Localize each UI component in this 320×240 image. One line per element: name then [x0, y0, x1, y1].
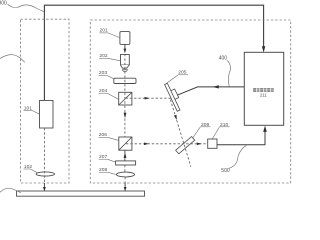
- leader squiggle for 300: [8, 4, 44, 11]
- label 202: [99, 53, 120, 61]
- beam 204 to scanner 205: [126, 97, 171, 99]
- wire 500: detector to processor: [217, 130, 265, 145]
- galvo actuator of 205: [170, 89, 178, 100]
- objective lens 208: [117, 172, 135, 177]
- dashed enclosure 100 (left module): [21, 19, 70, 183]
- svg-text:400: 400: [219, 55, 228, 61]
- beam: laser 101 to lens 102: [43, 128, 45, 183]
- label 101: [24, 105, 40, 114]
- arrow onto sample (right): [124, 187, 127, 191]
- label 204: [99, 88, 119, 100]
- beamsplitter 206: [119, 137, 132, 150]
- module title glyph marks (CJK smudge): [253, 88, 274, 91]
- arrow into processor top: [262, 46, 265, 52]
- beam 206 to 209 to 210: [126, 143, 208, 145]
- dashed enclosure 200 (right module): [90, 20, 290, 183]
- label 209: [192, 122, 210, 139]
- detector 210: [208, 139, 217, 148]
- beamsplitter 204: [119, 92, 132, 105]
- leader squiggle for module 100 (label cropped): [0, 55, 25, 63]
- arrow on beam 204 to 205: [145, 97, 150, 100]
- leader squiggle for sample 103 (label cropped): [0, 188, 21, 193]
- light source 201: [120, 32, 130, 45]
- label 205: [166, 70, 188, 84]
- wire 300: laser module to processor (top run): [44, 5, 263, 100]
- svg-text:211: 211: [260, 92, 267, 97]
- label 207: [99, 154, 116, 162]
- arrow into processor bottom: [263, 126, 267, 132]
- processing module 211: [244, 52, 283, 125]
- label 400: [219, 55, 231, 86]
- wire 400: processor to scanner: [177, 87, 244, 95]
- laser source 101: [40, 101, 54, 129]
- arrow on beam 206 to 207 (points up into 206): [124, 152, 127, 158]
- label 203: [99, 70, 114, 79]
- svg-text:203: 203: [99, 70, 107, 76]
- beam: lens 102 to sample: [43, 183, 45, 188]
- beam axis 202 to 206 (through 204): [124, 54, 126, 138]
- arrow on beam 206 to 209: [144, 143, 149, 146]
- arrow 201 to 202: [124, 44, 126, 49]
- lens 102 (ellipse): [36, 172, 54, 176]
- beam 208 to sample: [124, 177, 126, 183]
- arrow on beam 205 to 209: [174, 115, 177, 120]
- scan mirror 205: [165, 83, 180, 111]
- arrow on beam 204 to 206: [124, 113, 127, 119]
- lens 203: [114, 78, 136, 83]
- filter mirror 209: [176, 137, 195, 154]
- label 208: [99, 167, 116, 174]
- label 300: [0, 1, 7, 7]
- label 210: [212, 122, 229, 139]
- arrow onto sample (left): [43, 187, 46, 191]
- label 206: [99, 132, 119, 140]
- sample stage 103: [17, 191, 145, 196]
- beam: scanner 205 down through 209: [170, 100, 191, 167]
- label 201: [99, 28, 120, 38]
- beam 207 to 208: [124, 165, 126, 172]
- arrow on beam 209 to 210: [197, 143, 202, 146]
- beam 206 to 207: [124, 150, 126, 161]
- svg-text:500: 500: [221, 168, 230, 174]
- lens 207: [116, 161, 136, 165]
- label 102: [24, 164, 38, 173]
- svg-text:300: 300: [0, 1, 7, 7]
- label 500: [221, 145, 246, 174]
- arrow on wire 400 (points to scanner): [213, 85, 219, 88]
- collimator 202: [121, 55, 130, 72]
